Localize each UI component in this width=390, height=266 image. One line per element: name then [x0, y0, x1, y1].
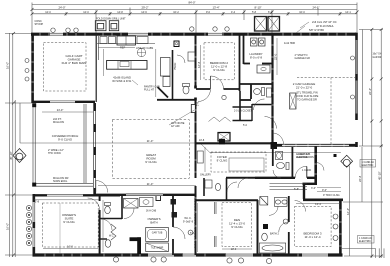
interior dim line kitchen	[155, 49, 157, 97]
owner suite north wall	[33, 194, 120, 196]
golf cart garage dashed roofline	[44, 43, 87, 91]
fridge	[117, 36, 136, 45]
right exterior (garage east) wall with OH doors	[355, 33, 358, 41]
svg-text:4'-4: 4'-4	[231, 11, 236, 14]
svg-text:14'-8: 14'-8	[117, 11, 123, 14]
step: vertical below garage	[314, 146, 317, 184]
great room west window wall	[94, 103, 96, 195]
left dim lines	[8, 33, 10, 257]
garden tub	[146, 228, 169, 242]
niche cabinet	[218, 133, 230, 142]
WIC wall	[172, 196, 174, 255]
svg-text:9' TRAY CLNG: 9' TRAY CLNG	[323, 194, 340, 197]
svg-text:9' CLNG: 9' CLNG	[213, 68, 225, 72]
bedroom2 door arc	[211, 76, 224, 89]
powder east wall	[291, 147, 293, 178]
svg-text:STOOP: STOOP	[35, 23, 44, 26]
art niche bump on great room wall	[191, 105, 195, 113]
svg-text:16'-0": 16'-0"	[6, 223, 10, 230]
section cut line	[20, 143, 341, 153]
top exterior wall	[31, 33, 357, 36]
golf cart garage text	[62, 54, 87, 65]
svg-text:5'-0: 5'-0	[243, 124, 248, 127]
golf cart garage west wall	[31, 33, 34, 103]
svg-text:24'-0": 24'-0"	[58, 6, 65, 10]
svg-text:5'-8: 5'-8	[252, 11, 257, 14]
powder south wall	[157, 99, 196, 101]
svg-text:W/ R-19 INSUL: W/ R-19 INSUL	[316, 24, 334, 28]
svg-text:29'-2": 29'-2"	[141, 6, 148, 10]
bottom exterior wall	[33, 253, 343, 256]
svg-text:14'-1: 14'-1	[345, 11, 351, 14]
svg-text:ELECTRIC: ELECTRIC	[296, 156, 309, 159]
garage door label right	[373, 54, 382, 59]
interior dim lines	[34, 38, 340, 252]
WC1 room	[100, 196, 122, 219]
top extension ticks	[31, 3, 33, 34]
svg-text:16'-0: 16'-0	[67, 244, 73, 248]
svg-text:36 H CAB: 36 H CAB	[146, 210, 157, 213]
svg-text:13'-4": 13'-4"	[212, 6, 219, 10]
svg-text:THK CONC: THK CONC	[48, 152, 61, 155]
step: vertical wall	[303, 184, 305, 199]
kitchen leader notes	[98, 47, 160, 92]
svg-text:W.C.: W.C.	[109, 235, 115, 238]
owner suite west wall (window wall)	[32, 194, 35, 202]
right side label boxes	[359, 161, 374, 243]
powder west wall	[172, 50, 174, 100]
top dim line A	[32, 4, 357, 6]
svg-text:10'-8: 10'-8	[199, 139, 205, 142]
porch column black at right entry	[334, 154, 337, 157]
svg-text:TILE SHWR: TILE SHWR	[151, 247, 164, 249]
AC pad labels right step	[297, 153, 314, 172]
svg-text:CONC FLR SLOPE: CONC FLR SLOPE	[296, 94, 319, 98]
svg-text:5'-8: 5'-8	[190, 232, 195, 235]
svg-text:BATH: BATH	[150, 221, 157, 225]
svg-text:ELECTRIC: ELECTRIC	[362, 164, 374, 167]
svg-text:12'-4: 12'-4	[315, 202, 321, 206]
pantry diagonal wall	[158, 87, 169, 98]
covered porch text	[52, 134, 79, 142]
svg-text:10'-2: 10'-2	[173, 11, 179, 14]
svg-text:9' CLNG: 9' CLNG	[145, 160, 157, 164]
step dims text	[294, 187, 340, 197]
bath door arcs	[254, 99, 265, 110]
svg-text:24'-1": 24'-1"	[312, 6, 319, 10]
svg-text:BATH 2: BATH 2	[270, 232, 279, 236]
svg-text:21'-0": 21'-0"	[147, 182, 154, 186]
foyer dashed ceiling	[211, 152, 266, 172]
hall bath (lower)	[204, 178, 227, 200]
svg-text:TO GARAGE DR: TO GARAGE DR	[297, 98, 317, 102]
svg-text:9' CLNG: 9' CLNG	[231, 225, 243, 229]
svg-text:GARAGE FLR: GARAGE FLR	[295, 57, 311, 60]
windows in exterior walls (white break + thin lines)	[33, 33, 328, 257]
svg-text:12'-4": 12'-4"	[346, 208, 350, 215]
powder fixtures	[183, 86, 189, 94]
section marker diamond left	[13, 149, 26, 163]
outdoor kitchen boxes above wall	[95, 21, 118, 31]
bedroom3 north wall	[303, 199, 343, 202]
bedroom3 east wall	[339, 199, 342, 257]
glass door section	[126, 194, 163, 196]
hall door arc	[198, 89, 211, 102]
toilet sideways	[254, 89, 261, 95]
powder fixtures	[276, 152, 283, 160]
svg-text:45'-10": 45'-10"	[378, 171, 382, 180]
svg-text:14'-6: 14'-6	[141, 11, 147, 14]
svg-text:PWDR: PWDR	[174, 62, 177, 70]
garage notes top right	[309, 20, 337, 32]
powder west wall	[272, 147, 274, 166]
small dim texts	[197, 101, 248, 142]
right dim lines	[371, 29, 373, 258]
svg-text:3'-0": 3'-0"	[311, 187, 316, 190]
svg-text:8'-0 x 6'-8: 8'-0 x 6'-8	[250, 56, 263, 60]
top dim line B	[32, 9, 357, 11]
covered porch left posts and edge	[33, 104, 93, 186]
garage south wall	[272, 144, 357, 147]
hatch speckle on main walls	[40, 33, 346, 257]
svg-text:21'-0 x 22'-0: 21'-0 x 22'-0	[296, 86, 313, 90]
black fixture at bath top	[219, 139, 225, 145]
bedroom2 dashed ceiling	[204, 43, 235, 80]
svg-text:4x12 HDR: 4x12 HDR	[284, 42, 295, 45]
skylight boxes	[255, 17, 280, 32]
LIN closet	[124, 199, 139, 209]
svg-text:22'-0: 22'-0	[273, 53, 277, 60]
svg-text:W/ SINK & D.W.: W/ SINK & D.W.	[112, 79, 132, 83]
svg-text:45'-10": 45'-10"	[9, 151, 13, 160]
svg-text:LINE OF CABS: LINE OF CABS	[136, 47, 154, 50]
hall south exterior wall	[255, 177, 295, 179]
svg-text:12'-0: 12'-0	[45, 11, 51, 14]
svg-text:9'-0 CLNG: 9'-0 CLNG	[58, 138, 73, 142]
svg-text:ELECTRIC: ELECTRIC	[359, 240, 371, 243]
bedroom east wall	[99, 196, 101, 255]
water heater	[290, 93, 296, 109]
entry steps	[270, 184, 308, 190]
svg-text:STL TROWEL FIN: STL TROWEL FIN	[296, 91, 317, 95]
svg-text:22'-4": 22'-4"	[368, 88, 372, 95]
front door	[306, 167, 308, 178]
svg-text:8'-10": 8'-10"	[254, 6, 261, 10]
svg-text:2-0 LIN CLOSET: 2-0 LIN CLOSET	[234, 110, 253, 113]
vestibule door arcs	[101, 219, 112, 230]
black L shower corner	[130, 237, 141, 241]
svg-text:2'-8: 2'-8	[35, 200, 40, 204]
den west cased opening	[215, 202, 217, 247]
svg-text:24'-0": 24'-0"	[57, 108, 64, 112]
svg-text:9' CLNG: 9' CLNG	[63, 220, 75, 224]
laundry walls	[244, 33, 273, 64]
svg-text:2x6 CLG JST 16" OC: 2x6 CLG JST 16" OC	[312, 20, 337, 24]
garage door opening in south wall	[282, 144, 349, 146]
svg-text:21'-0": 21'-0"	[147, 139, 154, 143]
golf cart garage south wall	[32, 101, 95, 103]
vanity	[140, 198, 154, 207]
tall cabinets / ovens	[161, 58, 171, 77]
svg-text:6'-2: 6'-2	[268, 11, 273, 14]
svg-text:2'-8: 2'-8	[197, 101, 200, 106]
svg-text:10'-0: 10'-0	[299, 11, 305, 14]
step: horizontal wall	[303, 183, 318, 185]
central bath	[240, 84, 272, 100]
great room south wall	[94, 194, 196, 196]
conc stoop note top left	[35, 20, 44, 26]
svg-text:16'-0": 16'-0"	[6, 62, 10, 69]
svg-text:22'-0: 22'-0	[231, 248, 237, 251]
kitchen island	[107, 61, 147, 70]
svg-text:W.I.C.: W.I.C.	[184, 216, 192, 220]
svg-text:FOLD DOWN GRILL UNIT: FOLD DOWN GRILL UNIT	[96, 18, 126, 21]
dark tags	[171, 199, 177, 205]
svg-text:SCRN ENCL: SCRN ENCL	[53, 180, 68, 183]
svg-text:9'-0x5'-9: 9'-0x5'-9	[183, 220, 194, 224]
svg-text:MULLION: MULLION	[53, 121, 64, 124]
svg-text:FLR 4" BLW MAIN: FLR 4" BLW MAIN	[62, 61, 87, 65]
svg-text:GAR TUB: GAR TUB	[152, 232, 163, 235]
svg-text:9' CLNG: 9' CLNG	[217, 159, 228, 163]
E panel tag	[174, 41, 179, 47]
ceiling fan	[137, 48, 145, 56]
svg-text:12'-0: 12'-0	[83, 11, 89, 14]
lin closet	[233, 104, 253, 121]
WC2	[105, 240, 111, 248]
svg-text:22'-8: 22'-8	[358, 175, 362, 182]
svg-text:GAR DR: GAR DR	[373, 56, 382, 59]
svg-text:11'-0 x 12'-4: 11'-0 x 12'-4	[304, 235, 320, 239]
svg-text:84'-0": 84'-0"	[188, 1, 195, 5]
svg-text:16x7 OH: 16x7 OH	[373, 54, 382, 56]
section marker diamond right	[341, 155, 353, 167]
golf cart garage east wall	[95, 34, 97, 102]
bifold doors	[209, 117, 231, 122]
shower	[146, 243, 169, 252]
svg-text:42x96 ISLAND: 42x96 ISLAND	[113, 76, 131, 80]
mech labels	[296, 153, 310, 159]
svg-text:GALLERY: GALLERY	[200, 174, 211, 177]
svg-text:42" AFF: 42" AFF	[171, 125, 180, 128]
svg-text:9'-0: 9'-0	[206, 11, 211, 14]
texts	[147, 217, 160, 225]
svg-text:5/8" GYP BD: 5/8" GYP BD	[309, 28, 324, 32]
svg-text:FULL HT: FULL HT	[144, 89, 155, 92]
boxed tag D	[156, 196, 161, 201]
